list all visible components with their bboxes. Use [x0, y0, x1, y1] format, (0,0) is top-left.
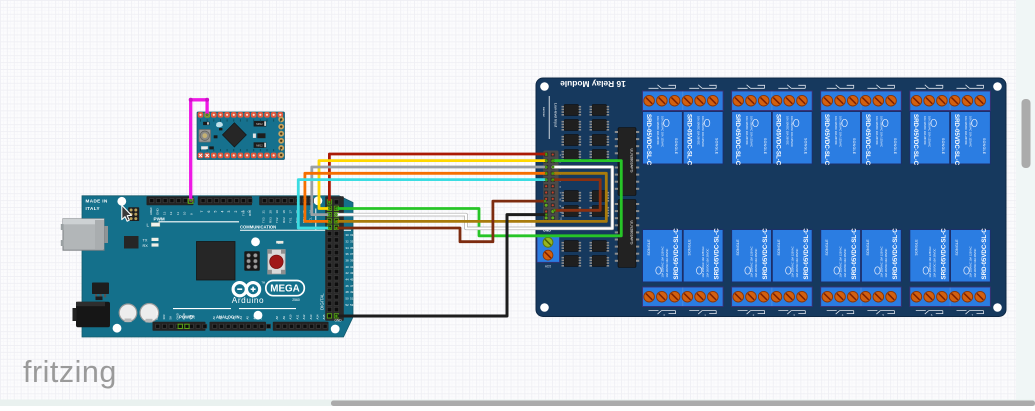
optocoupler ISO2 — [592, 105, 607, 116]
svg-text:ITALY: ITALY — [86, 206, 101, 211]
wire red: Mega 22 to relay IN1 — [329, 154, 546, 202]
top contact silkscreen — [738, 85, 765, 89]
svg-text:A12: A12 — [302, 314, 306, 319]
relay K6 — [861, 112, 901, 166]
Arduino Pro Mini module A2 — [197, 112, 285, 160]
svg-text:A11: A11 — [295, 314, 299, 319]
screw terminal block J9-J10 (bottom) — [643, 287, 724, 307]
top contact silkscreen — [827, 85, 854, 89]
svg-text:A7: A7 — [259, 316, 263, 320]
svg-text:RESET: RESET — [155, 310, 159, 320]
vertical scrollbar thumb — [1022, 99, 1031, 168]
svg-text:19: 19 — [275, 210, 279, 214]
relay K15 — [910, 228, 950, 282]
bottom header ANALOG A8-A15 strip — [273, 322, 329, 331]
svg-text:SONGLE: SONGLE — [736, 239, 740, 256]
top contact silkscreen — [649, 85, 676, 89]
optocoupler ISO1 — [564, 105, 579, 116]
optocoupler ISO14 — [592, 241, 607, 252]
screw terminal block J13-J14 (bottom) — [821, 287, 902, 307]
svg-text:RX3: RX3 — [268, 217, 272, 223]
bottom contact silkscreen — [738, 311, 765, 315]
power screw GND (green) — [543, 237, 553, 247]
svg-text:2: 2 — [234, 211, 238, 213]
svg-text:COMMUNICATION: COMMUNICATION — [240, 225, 276, 230]
ATmega2560 main chip — [197, 242, 236, 281]
svg-text:11: 11 — [176, 212, 180, 215]
svg-text:A13: A13 — [309, 314, 313, 319]
optocoupler ISO11 — [564, 206, 579, 217]
wire orange: Mega to relay IN4 — [305, 173, 546, 221]
svg-text:PWM: PWM — [154, 217, 165, 222]
Arduino infinity logo — [233, 283, 246, 296]
svg-text:ULN2803APG: ULN2803APG — [630, 220, 634, 244]
svg-text:SONGLE: SONGLE — [941, 138, 945, 155]
svg-text:GND: GND — [182, 313, 186, 319]
wire maroon: Mega to relay IN9 — [336, 201, 545, 242]
svg-text:SRD-05VDC-SL-C: SRD-05VDC-SL-C — [851, 228, 858, 280]
svg-text:34: 34 — [345, 246, 349, 250]
svg-text:SRD-05VDC-SL-C: SRD-05VDC-SL-C — [673, 228, 680, 280]
relay K11 — [732, 228, 772, 282]
svg-text:38: 38 — [345, 258, 349, 262]
svg-text:10A 30VDC 10A 28VDC: 10A 30VDC 10A 28VDC — [656, 116, 660, 145]
svg-text:10A 30VDC 10A 28VDC: 10A 30VDC 10A 28VDC — [786, 116, 790, 145]
svg-text:6: 6 — [207, 211, 211, 213]
power screw VCC (orange) — [543, 250, 553, 260]
ATmega8U2 chip — [124, 236, 139, 249]
svg-text:GND: GND — [156, 208, 160, 216]
svg-text:TM: TM — [262, 282, 265, 285]
svg-text:46: 46 — [345, 284, 349, 288]
svg-text:SONGLE: SONGLE — [852, 138, 856, 155]
svg-text:20: 20 — [268, 210, 272, 214]
wire tan: Mega to relay IN8 (under header) — [336, 173, 606, 221]
green GND pins on power strip — [178, 324, 182, 328]
relay K10 — [683, 228, 723, 282]
svg-text:10A 30VDC 10A 28VDC: 10A 30VDC 10A 28VDC — [875, 116, 879, 145]
wire white: Mega to relay IN7 (loop) — [336, 167, 612, 228]
electrolytic capacitors — [119, 304, 137, 322]
svg-text:16 Relay Module: 16 Relay Module — [560, 79, 626, 89]
svg-text:SONGLE: SONGLE — [825, 239, 829, 256]
svg-text:SONGLE: SONGLE — [715, 138, 719, 155]
svg-text:10A 30VDC 10A 28VDC: 10A 30VDC 10A 28VDC — [884, 249, 888, 278]
svg-text:SRD-05VDC-SL-C: SRD-05VDC-SL-C — [762, 228, 769, 280]
bottom silkscreen bracket lines — [173, 308, 231, 310]
svg-text:A14: A14 — [316, 314, 320, 319]
svg-text:A3: A3 — [232, 316, 236, 320]
MEGA badge — [266, 281, 305, 296]
wire rust jumper loop IN5-IN10 — [553, 180, 600, 211]
svg-text:10A 30VDC 10A 28VDC: 10A 30VDC 10A 28VDC — [834, 116, 838, 145]
svg-text:10A 30VDC 10A 28VDC: 10A 30VDC 10A 28VDC — [932, 249, 936, 278]
svg-text:10A 30VDC 10A 28VDC: 10A 30VDC 10A 28VDC — [964, 116, 968, 145]
16 relay module board U3 — [536, 78, 1006, 317]
bottom contact silkscreen — [916, 311, 943, 315]
svg-text:5: 5 — [214, 211, 218, 213]
ULN2803APG driver U1 — [618, 128, 636, 196]
bottom contact silkscreen — [827, 311, 854, 315]
svg-text:SRD-05VDC-SL-C: SRD-05VDC-SL-C — [823, 114, 830, 166]
svg-text:Low-level Input: Low-level Input — [554, 103, 558, 127]
svg-text:MADE IN: MADE IN — [86, 199, 108, 204]
relay K3 — [732, 112, 772, 166]
svg-text:10A 30VDC 10A 28VDC: 10A 30VDC 10A 28VDC — [973, 249, 977, 278]
svg-text:21: 21 — [262, 210, 266, 214]
optocoupler ISO5 — [564, 135, 579, 146]
svg-text:SONGLE: SONGLE — [674, 138, 678, 155]
relay K13 — [821, 228, 861, 282]
right double-row digital header — [325, 196, 344, 321]
svg-text:2560: 2560 — [292, 298, 300, 302]
svg-text:30: 30 — [345, 233, 349, 237]
bottom header POWER strip — [153, 322, 206, 331]
wire magenta: Pro Mini pin to Mega pin 6 — [191, 100, 207, 200]
relay module mounting holes — [540, 82, 549, 91]
svg-text:13: 13 — [162, 211, 166, 215]
svg-text:SRD-05VDC-SL-C: SRD-05VDC-SL-C — [940, 228, 947, 280]
svg-text:51: 51 — [350, 296, 354, 300]
svg-text:TX1: TX1 — [288, 217, 292, 223]
relay K16 — [951, 228, 991, 282]
svg-text:AREF: AREF — [149, 207, 153, 215]
svg-text:RX: RX — [143, 244, 149, 248]
optocoupler ISO6 — [592, 135, 607, 146]
horizontal scrollbar track — [0, 400, 1035, 407]
USB connector — [63, 219, 104, 250]
svg-text:10A 30VDC 10A 28VDC: 10A 30VDC 10A 28VDC — [843, 249, 847, 278]
relay K4 — [772, 112, 812, 166]
svg-text:TX2: TX2 — [275, 217, 279, 223]
top pin header strip 2 (7-0) — [198, 196, 252, 205]
ULN2803APG driver U2 — [618, 200, 636, 268]
svg-text:fritzing: fritzing — [23, 355, 117, 389]
svg-text:10A 30VDC 10A 28VDC: 10A 30VDC 10A 28VDC — [795, 249, 799, 278]
wire gray: Mega to relay IN3 — [312, 167, 546, 215]
svg-text:A9: A9 — [282, 316, 286, 320]
optocoupler ISO15 — [564, 256, 579, 267]
svg-text:Arduino: Arduino — [232, 296, 264, 305]
wire green: Mega to relay IN6 (loop around drivers) — [336, 161, 621, 236]
svg-text:VIN: VIN — [189, 315, 193, 320]
voltage regulator — [92, 283, 109, 295]
relay K12 — [772, 228, 812, 282]
svg-text:45: 45 — [350, 277, 354, 281]
svg-text:SONGLE: SONGLE — [777, 239, 781, 256]
svg-text:SONGLE: SONGLE — [955, 239, 959, 256]
svg-text:10A 30VDC 10A 28VDC: 10A 30VDC 10A 28VDC — [697, 116, 701, 145]
svg-text:39: 39 — [350, 258, 354, 262]
svg-text:44: 44 — [345, 277, 349, 281]
wire black: Mega GND to relay GND — [336, 215, 546, 316]
svg-text:SRD-05VDC-SL-C: SRD-05VDC-SL-C — [734, 114, 741, 166]
optocoupler ISO16 — [592, 256, 607, 267]
svg-text:A1: A1 — [219, 316, 223, 320]
svg-text:SRD-05VDC-SL-C: SRD-05VDC-SL-C — [892, 228, 899, 280]
svg-text:SRD-05VDC-SL-C: SRD-05VDC-SL-C — [981, 228, 988, 280]
svg-text:7: 7 — [200, 211, 204, 213]
svg-text:A2: A2 — [225, 316, 229, 320]
screw terminal block J5-J6 (top) — [821, 91, 902, 111]
svg-text:48: 48 — [345, 290, 349, 294]
svg-text:40: 40 — [345, 265, 349, 269]
svg-text:GND: GND — [175, 313, 179, 319]
svg-text:MEGA: MEGA — [270, 284, 299, 295]
svg-text:SONGLE: SONGLE — [647, 239, 651, 256]
svg-text:kamran: kamran — [542, 107, 546, 117]
svg-text:43: 43 — [350, 271, 354, 275]
relay K7 — [910, 112, 950, 166]
svg-text:17: 17 — [288, 210, 292, 214]
relay K1 — [643, 112, 683, 166]
input pin header (left, double row) — [543, 151, 558, 223]
ICSP header center — [244, 251, 259, 270]
mounting holes — [117, 197, 126, 206]
vertical scrollbar track — [1016, 0, 1035, 400]
optocoupler ISO9 — [564, 191, 579, 202]
svg-text:AD5: AD5 — [545, 265, 551, 269]
svg-text:RX2: RX2 — [282, 217, 286, 223]
svg-text:A6: A6 — [252, 316, 256, 320]
svg-text:SRD-05VDC-SL-C: SRD-05VDC-SL-C — [864, 114, 871, 166]
green pin with magenta wire (pin 6) — [188, 199, 193, 204]
relay K5 — [821, 112, 861, 166]
svg-text:3: 3 — [227, 211, 231, 213]
svg-text:10A 30VDC 10A 28VDC: 10A 30VDC 10A 28VDC — [754, 249, 758, 278]
svg-text:SRD-05VDC-SL-C: SRD-05VDC-SL-C — [912, 114, 919, 166]
svg-text:A5: A5 — [246, 316, 250, 320]
svg-text:SONGLE: SONGLE — [763, 138, 767, 155]
connected green pins on input header — [544, 153, 548, 157]
svg-text:SONGLE: SONGLE — [804, 138, 808, 155]
svg-text:SONGLE: SONGLE — [893, 138, 897, 155]
top contact silkscreen — [916, 85, 943, 89]
svg-text:M812: M812 — [256, 144, 263, 148]
power jack — [76, 302, 110, 327]
svg-text:A4: A4 — [239, 316, 243, 320]
bottom header ANALOG A0-A7 strip — [210, 322, 267, 331]
svg-text:50: 50 — [345, 296, 349, 300]
svg-text:42: 42 — [345, 271, 349, 275]
ICSP header top-left — [128, 207, 139, 221]
svg-text:SONGLE: SONGLE — [982, 138, 986, 155]
svg-text:SRD-05VDC-SL-C: SRD-05VDC-SL-C — [775, 114, 782, 166]
svg-text:36: 36 — [345, 252, 349, 256]
svg-text:32: 32 — [345, 239, 349, 243]
optocoupler ISO12 — [592, 206, 607, 217]
svg-text:37: 37 — [350, 252, 354, 256]
svg-text:53: 53 — [350, 303, 354, 307]
svg-text:47: 47 — [350, 284, 354, 288]
svg-text:18: 18 — [282, 210, 286, 214]
svg-text:SRD-05VDC-SL-C: SRD-05VDC-SL-C — [953, 114, 960, 166]
relay K8 — [951, 112, 991, 166]
top pin header strip 3 (communication 21-14) — [259, 196, 312, 205]
mouse cursor — [122, 205, 132, 221]
svg-text:M812: M812 — [256, 122, 263, 126]
svg-text:SRD-05VDC-SL-C: SRD-05VDC-SL-C — [686, 114, 693, 166]
svg-text:10A 30VDC 10A 28VDC: 10A 30VDC 10A 28VDC — [706, 249, 710, 278]
svg-text:A10: A10 — [289, 314, 293, 319]
svg-text:SRD-05VDC-SL-C: SRD-05VDC-SL-C — [714, 228, 721, 280]
screw terminal block J3-J4 (top) — [732, 91, 813, 111]
svg-text:10A 30VDC 10A 28VDC: 10A 30VDC 10A 28VDC — [665, 249, 669, 278]
svg-text:10A 30VDC 10A 28VDC: 10A 30VDC 10A 28VDC — [745, 116, 749, 145]
green connected pins right header — [327, 200, 331, 204]
screw terminal block J7-J8 (top) — [910, 91, 991, 111]
relay K2 — [683, 112, 723, 166]
svg-text:10: 10 — [183, 211, 187, 215]
svg-text:A0: A0 — [212, 316, 216, 320]
screw terminal block J11-J12 (bottom) — [732, 287, 813, 307]
bottom contact silkscreen — [649, 311, 676, 315]
optocoupler ISO4 — [592, 120, 607, 131]
screw terminal block J15-J16 (bottom) — [910, 287, 991, 307]
svg-text:SONGLE: SONGLE — [866, 239, 870, 256]
svg-text:31: 31 — [350, 233, 354, 237]
svg-text:4: 4 — [220, 211, 224, 213]
svg-text:5V: 5V — [169, 316, 173, 320]
Low-level Input vertical label — [548, 96, 550, 139]
svg-text:41: 41 — [350, 265, 354, 269]
svg-text:GND: GND — [335, 319, 343, 323]
svg-text:TX0: TX0 — [242, 210, 246, 216]
svg-text:SONGLE: SONGLE — [688, 239, 692, 256]
svg-text:DIGITAL: DIGITAL — [320, 293, 325, 310]
optocoupler ISO13 — [564, 241, 579, 252]
svg-text:SRD-05VDC-SL-C: SRD-05VDC-SL-C — [645, 114, 652, 166]
wire yellow: Mega to relay IN2 — [319, 161, 546, 209]
svg-text:SONGLE: SONGLE — [914, 239, 918, 256]
svg-text:3V3: 3V3 — [162, 314, 166, 319]
svg-text:ULN2803APG: ULN2803APG — [630, 148, 634, 172]
relay K14 — [861, 228, 901, 282]
horizontal scrollbar thumb — [331, 401, 1035, 407]
svg-text:52: 52 — [345, 303, 349, 307]
wire endpoint pads — [206, 114, 208, 116]
screw terminal block J1-J2 (top) — [643, 91, 724, 111]
svg-text:TX: TX — [143, 238, 148, 242]
optocoupler ISO7 — [564, 150, 579, 161]
svg-text:A8: A8 — [275, 316, 279, 320]
wire cyan: Mega to relay IN5 — [298, 180, 546, 228]
optocoupler ISO3 — [564, 120, 579, 131]
top pin header strip 1 (PWM 13-8) — [147, 196, 194, 205]
Arduino Mega 2560 board A1 — [61, 196, 354, 337]
relay K9 — [643, 228, 683, 282]
optocoupler ISO8 — [592, 150, 607, 161]
svg-text:35: 35 — [350, 246, 354, 250]
svg-text:RX0: RX0 — [248, 210, 252, 216]
svg-text:49: 49 — [350, 290, 354, 294]
svg-text:SRD-05VDC-SL-C: SRD-05VDC-SL-C — [803, 228, 810, 280]
optocoupler ISO10 — [592, 191, 607, 202]
power terminal block — [537, 237, 560, 263]
svg-text:10A 30VDC 10A 28VDC: 10A 30VDC 10A 28VDC — [923, 116, 927, 145]
svg-text:TX3: TX3 — [262, 217, 266, 223]
svg-text:12: 12 — [169, 211, 173, 215]
svg-text:33: 33 — [350, 239, 354, 243]
